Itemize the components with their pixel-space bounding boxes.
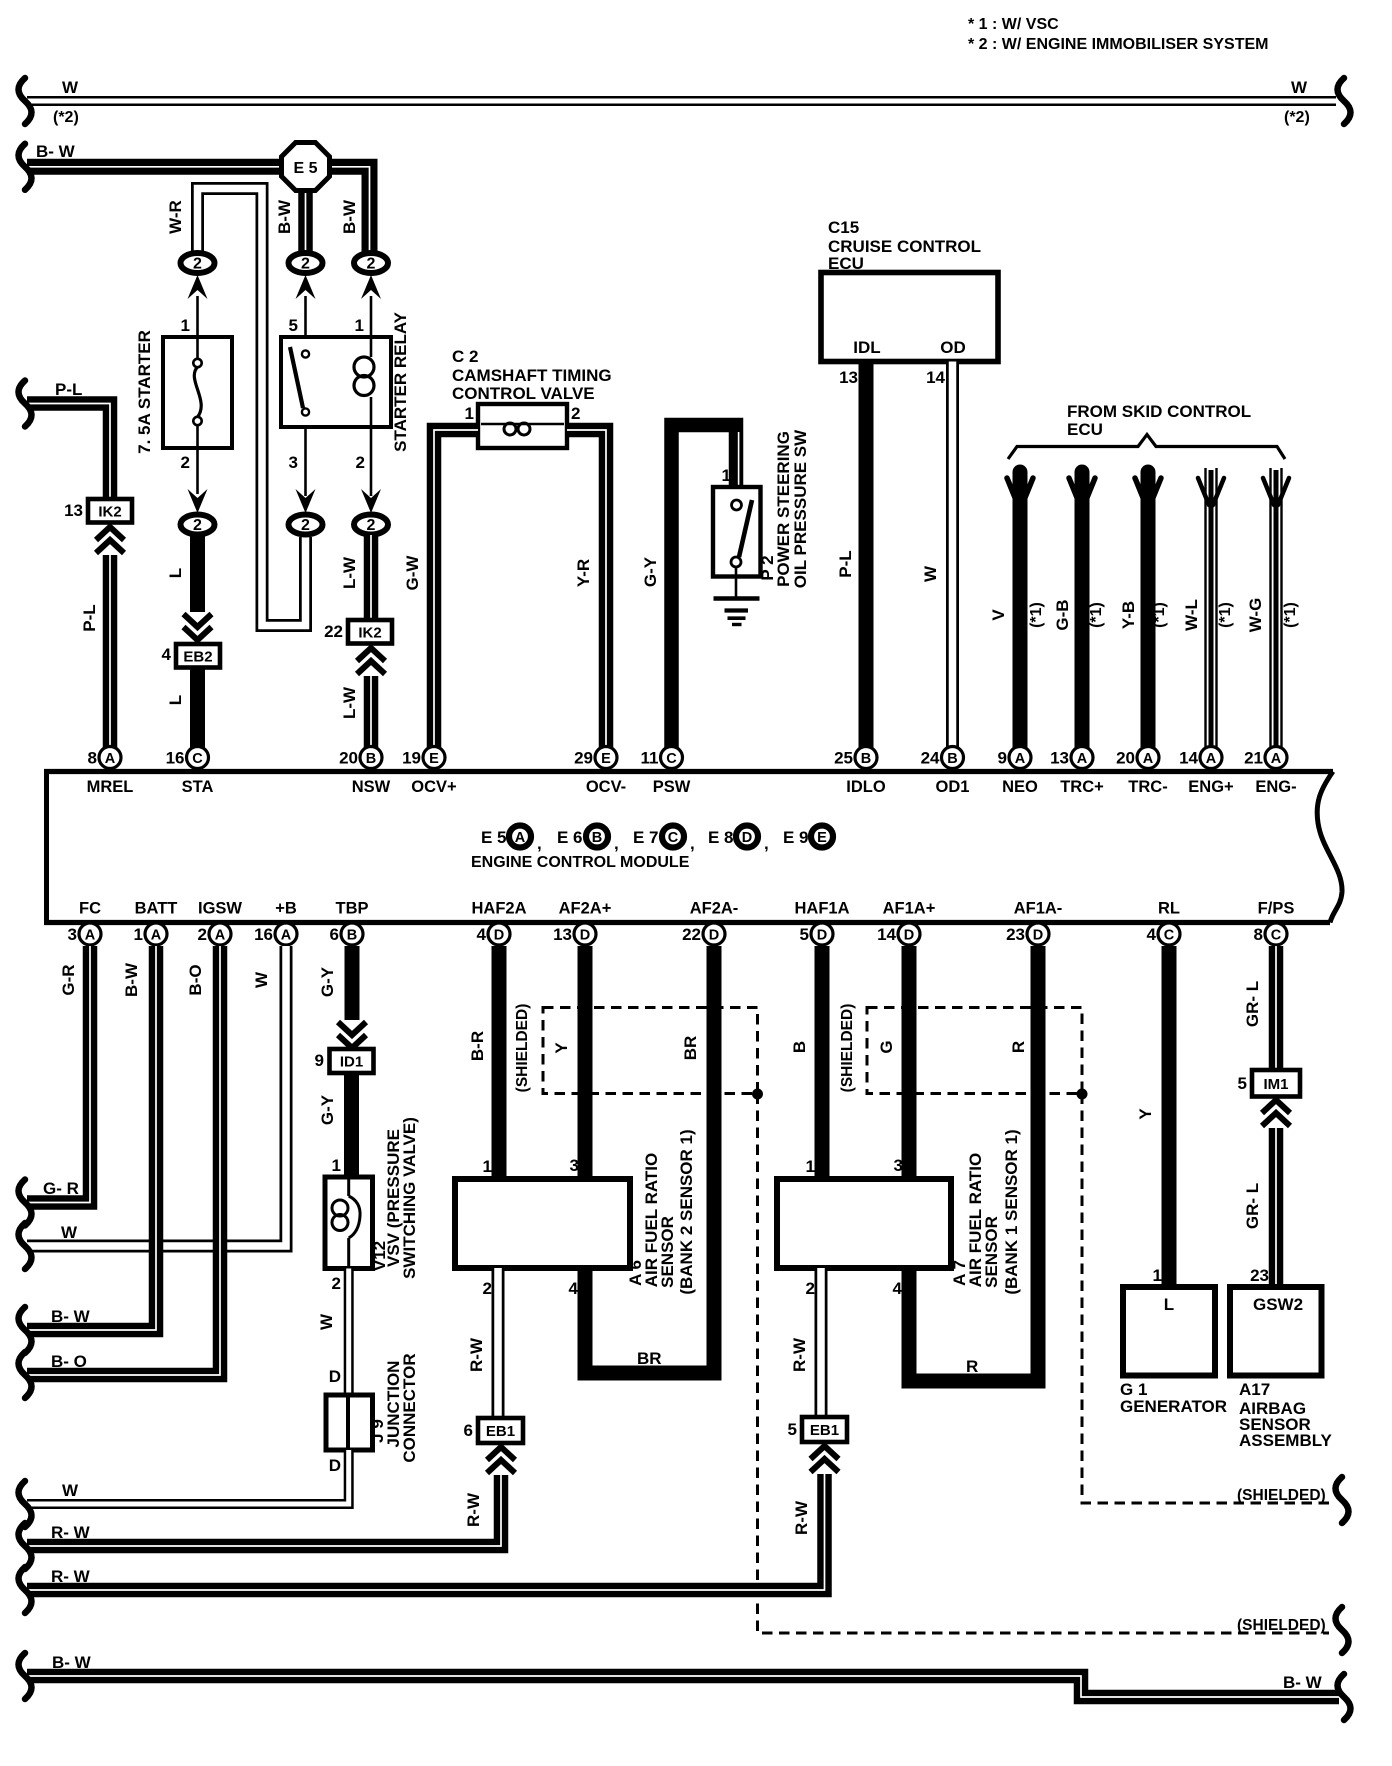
svg-text:Y: Y	[1136, 1108, 1155, 1120]
wire R-W from A7 pin 2 to EB1	[815, 1268, 828, 1417]
ECM ENGINE CONTROL MODULE box	[44, 769, 49, 925]
svg-text:L: L	[1164, 1295, 1174, 1314]
svg-text:G-W: G-W	[403, 555, 422, 591]
svg-text:W-G: W-G	[1246, 598, 1265, 633]
wire R from ECM pin AF1A- to A7 pin 4	[909, 946, 1038, 1381]
svg-text:B: B	[861, 751, 871, 767]
wire L from connector 2 to EB2	[190, 535, 205, 612]
svg-text:IK2: IK2	[358, 624, 381, 641]
svg-text:E 5: E 5	[481, 828, 507, 847]
svg-text:EB1: EB1	[810, 1422, 839, 1439]
switch P2 POWER STEERING OIL PRESSURE SW	[713, 487, 761, 577]
wire R-W from EB1 to break (bank1)	[27, 1474, 825, 1590]
svg-text:1: 1	[1153, 1266, 1162, 1285]
svg-text:TRC+: TRC+	[1060, 778, 1104, 796]
svg-text:1: 1	[722, 466, 731, 485]
wire G-Y from ID1 to VSV pin 1	[344, 1073, 359, 1177]
svg-text:4: 4	[893, 1279, 903, 1298]
svg-text:A: A	[1271, 751, 1282, 767]
svg-text:A: A	[281, 928, 292, 944]
svg-text:W-L: W-L	[1182, 599, 1201, 631]
svg-text:B- W: B- W	[1283, 1673, 1323, 1692]
svg-text:TBP: TBP	[336, 900, 369, 918]
svg-text:2: 2	[193, 517, 202, 534]
junction EB1 (bank2)	[478, 1418, 523, 1443]
svg-text:IDLO: IDLO	[846, 778, 886, 796]
svg-text:P-L: P-L	[836, 550, 855, 577]
svg-text:5: 5	[788, 1420, 797, 1439]
svg-text:(*1): (*1)	[1028, 602, 1045, 628]
svg-text:(*1): (*1)	[1088, 602, 1105, 628]
svg-text:L-W: L-W	[340, 686, 359, 719]
junction E5 octagon	[282, 143, 330, 191]
break left of B-W wire	[19, 1307, 32, 1353]
svg-text:ASSEMBLY: ASSEMBLY	[1239, 1431, 1333, 1450]
break left of W wire	[19, 1223, 32, 1269]
break left of R-W wire (bank1)	[19, 1567, 32, 1613]
svg-text:E 8: E 8	[708, 828, 734, 847]
wire W-L from skid control to ECM pin ENG+	[1209, 470, 1214, 748]
svg-text:1: 1	[181, 316, 190, 335]
svg-text:1: 1	[134, 925, 143, 944]
svg-text:B-W: B-W	[340, 199, 359, 234]
svg-text:(*1): (*1)	[1282, 602, 1299, 628]
svg-text:IM1: IM1	[1263, 1076, 1288, 1093]
svg-text:R-W: R-W	[792, 1500, 811, 1535]
svg-text:B: B	[947, 751, 957, 767]
arrow double chevron up into IK2	[357, 648, 385, 661]
wire Y from ECM pin AF2A+ to A6 pin 3	[578, 946, 593, 1179]
svg-text:W: W	[61, 1223, 78, 1242]
svg-text:(*1): (*1)	[1151, 602, 1168, 628]
wire L from EB2 to ECM pin STA	[190, 668, 205, 749]
svg-text:SENSOR: SENSOR	[982, 1216, 1001, 1288]
svg-text:3: 3	[68, 925, 77, 944]
wire W-G from skid control to ECM pin ENG-	[1274, 470, 1279, 748]
ECM pin 20 A TRC-	[1137, 747, 1159, 769]
wire G-Y from P2 to ECM pin PSW	[672, 425, 737, 748]
fuse F 7.5A STARTER	[163, 337, 232, 448]
wire B-O from ECM pin IGSW to break	[27, 946, 220, 1375]
svg-text:C 2: C 2	[452, 347, 478, 366]
svg-text:8: 8	[1254, 925, 1263, 944]
wire P-L from C15 IDL to ECM pin IDLO	[859, 362, 874, 749]
svg-text:B: B	[592, 830, 602, 846]
svg-text:W-R: W-R	[166, 200, 185, 234]
break left of W wire bottom	[19, 1481, 32, 1527]
ECM pin 13 A TRC+	[1071, 747, 1093, 769]
svg-text:D: D	[580, 928, 590, 944]
svg-text:4: 4	[162, 645, 172, 664]
break right of shield line upper	[1336, 1477, 1349, 1523]
ECM pin 24 B OD1	[942, 747, 964, 769]
svg-text:8: 8	[88, 749, 97, 768]
svg-text:B: B	[347, 928, 357, 944]
svg-text:1: 1	[806, 1157, 815, 1176]
svg-text:+B: +B	[275, 900, 297, 918]
connector 2 (B-W / relay pin1)	[354, 253, 388, 273]
svg-text:A: A	[1077, 751, 1088, 767]
svg-text:Y: Y	[552, 1042, 571, 1054]
wire R-W from A6 pin 2 to EB1	[492, 1268, 505, 1418]
svg-text:B- O: B- O	[51, 1352, 87, 1371]
shield box (SHIELDED) bank 1	[867, 1008, 1082, 1094]
arrow into connector 2 from relay pin 5	[296, 275, 316, 299]
svg-text:B- W: B- W	[52, 1653, 92, 1672]
svg-text:W: W	[252, 971, 271, 988]
svg-text:B: B	[366, 751, 376, 767]
svg-text:IGSW: IGSW	[198, 900, 242, 918]
svg-text:P-L: P-L	[80, 604, 99, 631]
wire G-W valve pin1 to ECM pin OCV+	[434, 430, 478, 748]
svg-text:3: 3	[894, 1156, 903, 1175]
svg-text:R-W: R-W	[464, 1492, 483, 1527]
wire R-W from EB1 to break (bank2)	[27, 1475, 501, 1546]
wire Y-R valve pin2 to ECM pin OCV-	[567, 430, 606, 748]
ECM pin 29 E OCV-	[595, 747, 617, 769]
svg-text:C: C	[666, 751, 677, 767]
svg-text:HAF2A: HAF2A	[471, 900, 526, 918]
svg-text:A: A	[1206, 751, 1217, 767]
svg-text:STA: STA	[182, 778, 214, 796]
svg-text:A17: A17	[1239, 1380, 1270, 1399]
wire B from ECM pin HAF1A to A7 pin 1	[815, 946, 830, 1179]
arrow double chevron up into EB1 (bank1)	[811, 1446, 839, 1459]
svg-text:RL: RL	[1158, 900, 1180, 918]
ECM pin 3 A FC	[79, 923, 101, 945]
arrow double chevron up into EB1 (bank2)	[487, 1447, 515, 1460]
svg-text:5: 5	[289, 316, 298, 335]
svg-text:Y-B: Y-B	[1119, 601, 1138, 629]
junction EB2	[176, 644, 220, 668]
svg-text:2: 2	[301, 517, 310, 534]
ECM pin 1 A BATT	[145, 923, 167, 945]
svg-text:R-W: R-W	[467, 1337, 486, 1372]
ECM pin 9 A NEO	[1009, 747, 1031, 769]
svg-text:* 2 : W/ ENGINE IMMOBILISER SY: * 2 : W/ ENGINE IMMOBILISER SYSTEM	[968, 36, 1268, 53]
valve V12 VSV (PRESSURE SWITCHING VALVE)	[325, 1177, 373, 1269]
svg-text:(BANK 1 SENSOR 1): (BANK 1 SENSOR 1)	[1002, 1129, 1021, 1294]
shield line bank 2 to break	[758, 1094, 1330, 1634]
svg-text:1: 1	[483, 1157, 492, 1176]
svg-text:R- W: R- W	[51, 1567, 91, 1586]
svg-text:14: 14	[877, 925, 896, 944]
svg-text:9: 9	[315, 1051, 324, 1070]
ECM pin 8 C F/PS	[1265, 923, 1287, 945]
junction dot on shield bank 2	[752, 1089, 763, 1100]
svg-text:BATT: BATT	[135, 900, 178, 918]
svg-text:2: 2	[367, 517, 376, 534]
svg-text:22: 22	[324, 622, 343, 641]
svg-text:HAF1A: HAF1A	[794, 900, 849, 918]
arrow double chevron down into ID1	[338, 1022, 366, 1035]
wire P-L from break to IK2	[27, 404, 110, 500]
svg-text:AF2A-: AF2A-	[690, 900, 739, 918]
break left of R-W wire (bank2)	[19, 1523, 32, 1569]
svg-text:23: 23	[1006, 925, 1025, 944]
junction IK2 (NSW)	[348, 620, 392, 644]
wire GR-L from IM1 to A17 pin 23	[1269, 1128, 1284, 1287]
svg-text:ENG-: ENG-	[1255, 778, 1296, 796]
wire relay pin 2 to connector 2	[370, 427, 373, 496]
svg-text:E 9: E 9	[783, 828, 809, 847]
svg-text:E 5: E 5	[293, 160, 317, 177]
svg-text:E: E	[429, 751, 439, 767]
svg-text:22: 22	[682, 925, 701, 944]
svg-text:D: D	[494, 928, 504, 944]
svg-text:F/PS: F/PS	[1258, 900, 1295, 918]
svg-text:13: 13	[553, 925, 572, 944]
svg-text:14: 14	[926, 368, 945, 387]
ECM pin 22 D AF2A-	[703, 923, 725, 945]
ECM pin 20 B NSW	[360, 747, 382, 769]
svg-text:(*2): (*2)	[53, 109, 79, 126]
svg-text:OIL PRESSURE SW: OIL PRESSURE SW	[791, 429, 810, 588]
svg-text:G-Y: G-Y	[318, 966, 337, 997]
wire B-R from ECM pin HAF2A to A6 pin 1	[492, 946, 507, 1179]
connector 2 (fuse to EB2)	[181, 515, 215, 535]
ECM pin 19 E OCV+	[423, 747, 445, 769]
svg-text:11: 11	[641, 749, 659, 768]
svg-text:ENGINE CONTROL MODULE: ENGINE CONTROL MODULE	[471, 854, 690, 871]
svg-text:4: 4	[477, 925, 487, 944]
break right of W wire	[1338, 78, 1351, 124]
wire Y-B from skid control to ECM pin TRC-	[1141, 472, 1156, 748]
svg-text:19: 19	[402, 749, 421, 768]
svg-text:7. 5A STARTER: 7. 5A STARTER	[135, 330, 154, 454]
ECM pin 11 C PSW	[661, 747, 683, 769]
break left of G-R wire	[19, 1180, 32, 1226]
svg-text:B-O: B-O	[186, 964, 205, 995]
ECM pin 6 B TBP	[341, 923, 363, 945]
break left of W wire	[19, 78, 32, 124]
ECM pin 14 D AF1A+	[898, 923, 920, 945]
svg-text:OCV+: OCV+	[411, 778, 456, 796]
sensor A7 AIR FUEL RATIO SENSOR (BANK 1 SENSOR 1)	[777, 1179, 951, 1268]
svg-text:W: W	[62, 78, 79, 97]
svg-text:2: 2	[181, 453, 190, 472]
svg-text:(SHIELDED): (SHIELDED)	[839, 1004, 856, 1093]
svg-text:BR: BR	[681, 1036, 700, 1061]
svg-text:Y-R: Y-R	[574, 559, 593, 587]
svg-text:2: 2	[356, 453, 365, 472]
arrow into connector 2 from relay pin 1	[361, 275, 381, 299]
svg-text:2: 2	[367, 256, 376, 273]
airbag sensor assembly A17 box	[1230, 1287, 1322, 1376]
arrow into connector 2 below fuse	[188, 489, 208, 513]
wire from fuse pin 2 to connector 2	[196, 448, 199, 494]
svg-text:13: 13	[839, 368, 858, 387]
ECU C15 CRUISE CONTROL ECU box	[821, 273, 998, 362]
generator G1 box	[1123, 1287, 1215, 1376]
svg-text:13: 13	[64, 501, 83, 520]
shield box (SHIELDED) bank 2	[543, 1008, 758, 1094]
svg-text:20: 20	[1116, 749, 1135, 768]
svg-text:STARTER RELAY: STARTER RELAY	[391, 311, 410, 451]
svg-text:AF2A+: AF2A+	[559, 900, 612, 918]
wire Y from ECM pin RL to G1 pin 1	[1162, 946, 1177, 1287]
svg-text:CONNECTOR: CONNECTOR	[400, 1353, 419, 1462]
svg-text:ECU: ECU	[828, 254, 864, 273]
svg-text:IDL: IDL	[853, 338, 880, 357]
svg-text:CONTROL VALVE: CONTROL VALVE	[452, 384, 595, 403]
svg-text:L-W: L-W	[340, 556, 359, 589]
ECM pin 8 A MREL	[99, 747, 121, 769]
ECM pin 21 A ENG-	[1265, 747, 1287, 769]
connector 2 (relay pin3 to W-R)	[289, 515, 323, 535]
svg-text:2: 2	[806, 1279, 815, 1298]
svg-text:16: 16	[254, 925, 273, 944]
svg-text:GSW2: GSW2	[1253, 1295, 1303, 1314]
svg-text:R-W: R-W	[790, 1337, 809, 1372]
junction IM1	[1252, 1070, 1300, 1097]
break left of B-W bottom	[19, 1653, 32, 1699]
svg-text:OD1: OD1	[936, 778, 970, 796]
svg-text:2: 2	[332, 1274, 341, 1293]
svg-text:OD: OD	[940, 338, 966, 357]
svg-text:B- W: B- W	[36, 142, 76, 161]
svg-text:9: 9	[998, 749, 1007, 768]
svg-text:AF1A-: AF1A-	[1014, 900, 1063, 918]
svg-text:A: A	[215, 928, 226, 944]
sensor A6 AIR FUEL RATIO SENSOR (BANK 2 SENSOR 1)	[455, 1179, 630, 1268]
svg-text:W: W	[62, 1481, 79, 1500]
svg-text:A: A	[515, 830, 526, 846]
svg-text:14: 14	[1179, 749, 1198, 768]
svg-text:(SHIELDED): (SHIELDED)	[514, 1004, 531, 1093]
svg-text:5: 5	[800, 925, 809, 944]
svg-text:PSW: PSW	[653, 778, 691, 796]
relay STARTER RELAY	[281, 337, 391, 427]
ECM pin 16 A +B	[275, 923, 297, 945]
svg-text:C: C	[668, 830, 679, 846]
junction connector J9	[326, 1395, 373, 1450]
arrow double chevron into EB2	[184, 614, 212, 627]
ECM pin 4 D HAF2A	[488, 923, 510, 945]
arrow into connector 2 below relay pin 3	[296, 489, 316, 513]
svg-text:R: R	[966, 1357, 978, 1376]
wire V from skid control to ECM pin NEO	[1013, 472, 1028, 748]
wire W from VSV pin 2 to J9	[344, 1269, 354, 1396]
wire B-W from break to E5 and down to connectors 2	[27, 167, 370, 255]
svg-text:A: A	[151, 928, 162, 944]
svg-text:L: L	[166, 695, 185, 705]
svg-text:D: D	[329, 1456, 341, 1475]
arrow double chevron up into IK2	[96, 527, 124, 540]
svg-text:G-R: G-R	[59, 964, 78, 995]
wire P-L from IK2 to ECM pin MREL	[103, 555, 118, 748]
svg-text:W: W	[317, 1313, 336, 1330]
svg-text:CAMSHAFT TIMING: CAMSHAFT TIMING	[452, 366, 612, 385]
svg-text:,: ,	[537, 834, 542, 853]
svg-text:GENERATOR: GENERATOR	[1120, 1397, 1227, 1416]
wire G-B from skid control to ECM pin TRC+	[1075, 472, 1090, 748]
svg-text:3: 3	[289, 453, 298, 472]
svg-text:SENSOR: SENSOR	[658, 1216, 677, 1288]
svg-text:OCV-: OCV-	[586, 778, 626, 796]
svg-text:2: 2	[193, 256, 202, 273]
wire L-W from IK2 to ECM pin NSW	[364, 676, 379, 748]
wire W from ECM pin +B to break	[27, 946, 286, 1246]
break left of P-L wire	[19, 381, 32, 427]
svg-text:E: E	[601, 751, 611, 767]
wire BR from ECM pin AF2A- to A6 pin 4	[585, 946, 714, 1373]
wire B-W from E5 down to connector 2	[298, 185, 313, 255]
wire B-W from ECM pin BATT to break	[27, 946, 156, 1330]
svg-text:A: A	[1143, 751, 1154, 767]
svg-text:G: G	[877, 1040, 896, 1053]
svg-text:B-W: B-W	[122, 962, 141, 997]
svg-text:B-R: B-R	[468, 1031, 487, 1061]
svg-text:1: 1	[355, 316, 364, 335]
svg-text:25: 25	[834, 749, 853, 768]
svg-text:GR- L: GR- L	[1243, 1183, 1262, 1229]
ECM pin 13 D AF2A+	[574, 923, 596, 945]
svg-text:1: 1	[465, 404, 474, 423]
junction ID1	[330, 1049, 374, 1073]
svg-text:C: C	[1164, 928, 1175, 944]
svg-text:13: 13	[1050, 749, 1069, 768]
svg-text:L: L	[166, 568, 185, 578]
svg-text:2: 2	[571, 404, 580, 423]
svg-text:B-W: B-W	[275, 199, 294, 234]
svg-text:D: D	[709, 928, 719, 944]
wire L-W from connector 2 to IK2	[364, 535, 379, 620]
svg-text:1: 1	[332, 1156, 341, 1175]
svg-text:6: 6	[464, 1421, 473, 1440]
junction EB1 (bank1)	[802, 1417, 847, 1442]
valve C2 CAMSHAFT TIMING CONTROL VALVE	[478, 404, 567, 448]
svg-text:D: D	[817, 928, 827, 944]
wire W from C15 OD to ECM pin OD1	[946, 362, 959, 749]
svg-text:NEO: NEO	[1002, 778, 1038, 796]
svg-text:E 7: E 7	[633, 828, 659, 847]
svg-text:2: 2	[301, 256, 310, 273]
ground symbol below P2	[735, 567, 738, 597]
ECM pin 16 C STA	[187, 747, 209, 769]
ECM pin 5 D HAF1A	[811, 923, 833, 945]
svg-text:EB2: EB2	[183, 648, 212, 665]
svg-text:C: C	[1271, 928, 1282, 944]
svg-text:IK2: IK2	[98, 503, 121, 520]
connector 2 (relay pin2 to L-W)	[354, 515, 388, 535]
svg-text:(*2): (*2)	[1284, 109, 1310, 126]
svg-text:BR: BR	[637, 1349, 662, 1368]
shield line bank 1 to break	[1082, 1094, 1329, 1504]
wire W (*2) top bus	[27, 96, 1336, 106]
wire W-R loop from connector 2 to connector 2	[198, 189, 306, 626]
svg-text:NSW: NSW	[352, 778, 391, 796]
svg-text:R: R	[1009, 1041, 1028, 1053]
wire G-R from ECM pin FC to break	[27, 946, 90, 1203]
svg-text:AF1A+: AF1A+	[883, 900, 936, 918]
svg-text:3: 3	[570, 1156, 579, 1175]
svg-text:W: W	[921, 565, 940, 582]
svg-text:,: ,	[614, 834, 619, 853]
svg-text:P-L: P-L	[55, 380, 82, 399]
svg-text:GR- L: GR- L	[1243, 981, 1262, 1027]
svg-text:D: D	[742, 830, 752, 846]
svg-text:* 1 : W/ VSC: * 1 : W/ VSC	[968, 16, 1059, 33]
svg-text:A: A	[85, 928, 96, 944]
break left of B-W wire	[19, 144, 32, 190]
wire G-Y from ECM pin TBP to ID1	[345, 946, 360, 1020]
svg-text:2: 2	[198, 925, 207, 944]
svg-text:ENG+: ENG+	[1188, 778, 1233, 796]
connector 2 (B-W / relay pin5)	[289, 253, 323, 273]
svg-text:G- R: G- R	[43, 1179, 79, 1198]
svg-text:5: 5	[1238, 1074, 1247, 1093]
